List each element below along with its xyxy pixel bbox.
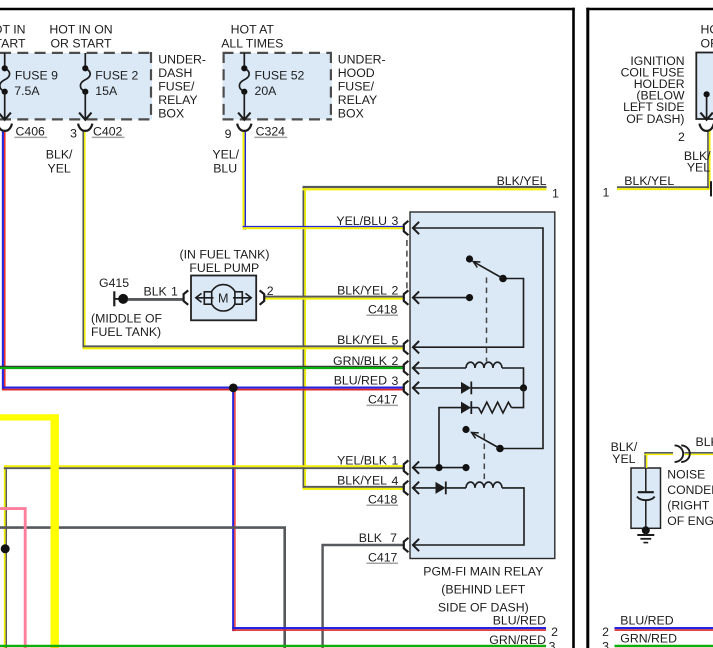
svg-text:FUSE/: FUSE/	[338, 79, 375, 93]
svg-text:BLK/: BLK/	[46, 147, 73, 161]
svg-text:BLU/RED: BLU/RED	[334, 374, 387, 388]
svg-text:NOISE: NOISE	[667, 468, 705, 482]
svg-text:YEL/BLK: YEL/BLK	[337, 453, 388, 467]
svg-text:OR START: OR START	[50, 37, 112, 51]
svg-text:GRN/RED: GRN/RED	[489, 633, 546, 647]
svg-text:BLK: BLK	[359, 531, 383, 545]
svg-text:RELAY: RELAY	[338, 93, 377, 107]
svg-text:2: 2	[267, 284, 274, 298]
svg-text:BLK/YEL: BLK/YEL	[624, 174, 674, 188]
svg-text:GRN/BLK: GRN/BLK	[333, 354, 388, 368]
svg-text:C406: C406	[16, 125, 46, 139]
svg-text:FUSE 2: FUSE 2	[95, 69, 138, 83]
svg-text:3: 3	[70, 126, 77, 140]
svg-text:YEL: YEL	[48, 161, 71, 175]
svg-text:1: 1	[552, 186, 559, 200]
svg-text:SIDE OF DASH): SIDE OF DASH)	[438, 600, 529, 614]
svg-text:(RIGHT FRONT: (RIGHT FRONT	[667, 498, 713, 512]
svg-text:FUSE 52: FUSE 52	[255, 69, 305, 83]
svg-text:DASH: DASH	[158, 66, 192, 80]
svg-text:7.5A: 7.5A	[14, 84, 40, 98]
svg-text:1: 1	[392, 454, 399, 468]
svg-text:UNDER-: UNDER-	[158, 52, 206, 66]
svg-text:HOT AT: HOT AT	[231, 23, 275, 37]
svg-text:3: 3	[392, 214, 399, 228]
svg-text:FUSE/: FUSE/	[158, 79, 195, 93]
svg-text:1: 1	[171, 284, 178, 298]
svg-text:OR START: OR START	[0, 37, 26, 51]
svg-text:2: 2	[602, 625, 609, 639]
svg-text:OF ENGINE): OF ENGINE)	[667, 514, 713, 528]
svg-text:3: 3	[549, 639, 556, 648]
svg-text:4: 4	[392, 474, 399, 488]
svg-text:15A: 15A	[95, 84, 118, 98]
svg-text:9: 9	[225, 127, 232, 141]
svg-text:BLK/YEL: BLK/YEL	[337, 474, 387, 488]
svg-text:BLU/RED: BLU/RED	[620, 613, 673, 627]
svg-text:(MIDDLE OF: (MIDDLE OF	[91, 311, 163, 325]
svg-text:2: 2	[551, 625, 558, 639]
svg-text:OF DASH): OF DASH)	[626, 112, 684, 126]
svg-text:PGM-FI MAIN RELAY: PGM-FI MAIN RELAY	[423, 564, 543, 578]
svg-text:M: M	[218, 292, 229, 306]
svg-text:FUEL TANK): FUEL TANK)	[91, 325, 161, 339]
svg-text:HOT IN ON: HOT IN ON	[49, 23, 112, 37]
svg-text:BLU: BLU	[213, 161, 237, 175]
svg-text:C417: C417	[368, 392, 398, 406]
svg-text:1: 1	[602, 186, 609, 200]
svg-text:HOT: HOT	[701, 23, 713, 37]
svg-text:2: 2	[392, 354, 399, 368]
svg-text:BOX: BOX	[158, 106, 184, 120]
svg-text:ALL TIMES: ALL TIMES	[221, 37, 283, 51]
svg-text:3: 3	[602, 639, 609, 648]
svg-text:3: 3	[392, 374, 399, 388]
svg-text:YEL: YEL	[687, 161, 710, 175]
svg-text:FUEL PUMP: FUEL PUMP	[189, 261, 259, 275]
svg-text:CONDENSER: CONDENSER	[667, 483, 713, 497]
svg-text:YEL: YEL	[612, 452, 635, 466]
svg-text:HOT IN: HOT IN	[0, 23, 26, 37]
svg-text:BLK/YEL: BLK/YEL	[337, 333, 387, 347]
svg-text:BLK/: BLK/	[696, 435, 713, 449]
svg-text:C324: C324	[256, 125, 286, 139]
svg-text:BLK/YEL: BLK/YEL	[497, 174, 547, 188]
svg-text:G415: G415	[99, 276, 129, 290]
svg-text:RELAY: RELAY	[158, 93, 197, 107]
svg-text:5: 5	[392, 333, 399, 347]
svg-text:OR S: OR S	[701, 37, 713, 51]
svg-text:BLK/YEL: BLK/YEL	[337, 283, 387, 297]
svg-text:FUSE 9: FUSE 9	[15, 69, 58, 83]
svg-text:BLU/RED: BLU/RED	[493, 613, 546, 627]
svg-text:(IN FUEL TANK): (IN FUEL TANK)	[180, 247, 270, 261]
svg-text:BOX: BOX	[338, 106, 364, 120]
svg-text:(BEHIND LEFT: (BEHIND LEFT	[441, 582, 526, 596]
svg-text:20A: 20A	[255, 84, 278, 98]
svg-text:BLK: BLK	[144, 284, 168, 298]
svg-text:C417: C417	[368, 550, 398, 564]
svg-text:UNDER-: UNDER-	[338, 52, 386, 66]
svg-text:C418: C418	[368, 492, 398, 506]
svg-text:2: 2	[678, 130, 685, 144]
svg-text:2: 2	[392, 284, 399, 298]
svg-text:HOOD: HOOD	[338, 66, 375, 80]
svg-text:GRN/RED: GRN/RED	[620, 631, 677, 645]
svg-text:YEL/: YEL/	[212, 147, 239, 161]
svg-text:C418: C418	[368, 302, 398, 316]
svg-text:7: 7	[390, 531, 397, 545]
svg-text:YEL/BLU: YEL/BLU	[336, 214, 387, 228]
svg-text:C402: C402	[93, 125, 123, 139]
